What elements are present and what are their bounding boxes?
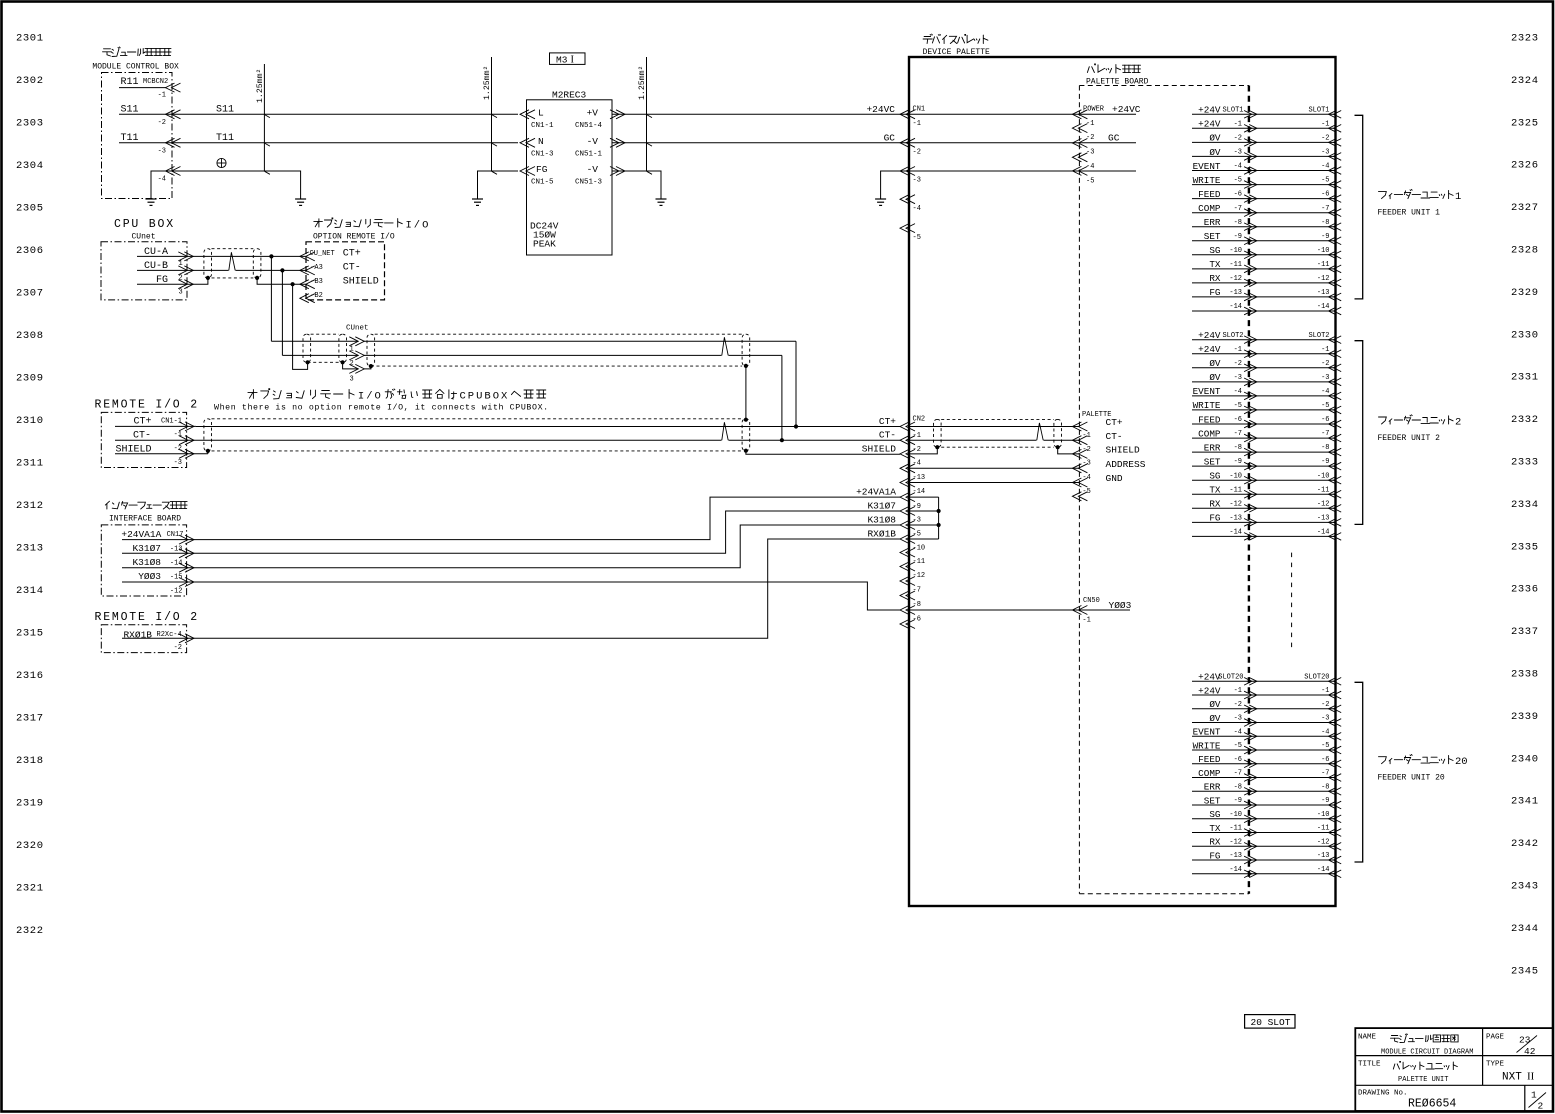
svg-text:+24VA1A: +24VA1A [856, 487, 896, 498]
SLOT2 row 5 wire right segment [1249, 395, 1336, 397]
wire CT+ long run [196, 426, 900, 428]
SLOT2 row 13 connector at slot line [1244, 505, 1252, 513]
wire S11 run to M3I [119, 113, 518, 115]
CN2 right stub +24VA1A [909, 496, 939, 498]
svg-text:FEED: FEED [1198, 414, 1221, 425]
junction SHIELD drop [291, 282, 295, 286]
bus2 left cap [204, 419, 212, 451]
svg-text:-10: -10 [1317, 472, 1330, 480]
svg-text:-B3: -B3 [310, 278, 323, 286]
svg-text:-14: -14 [1317, 303, 1330, 311]
svg-text:-5: -5 [1321, 402, 1329, 410]
SLOT1 row 2 connector at slot line [1244, 125, 1252, 133]
palette board slot line bold dashed [1248, 86, 1250, 894]
SLOT1 row 11 connector at slot line [1244, 251, 1252, 259]
svg-text:-11: -11 [1229, 825, 1242, 833]
wire +24VA1A out [122, 539, 196, 541]
CN2 pin row y=440.2 [900, 436, 909, 445]
svg-text:GND: GND [1106, 473, 1123, 484]
svg-text:-5: -5 [1234, 402, 1242, 410]
interface board box outline [101, 525, 186, 596]
svg-text:-1: -1 [1321, 346, 1329, 354]
SLOT1 row 5 wire right segment [1249, 170, 1336, 172]
svg-text:1: 1 [1531, 1090, 1537, 1101]
SLOT1 row 4 wire right segment [1249, 155, 1336, 157]
connector -A3 CT- [300, 266, 309, 275]
SLOT20 row 2 connector at feeder line [1329, 691, 1337, 699]
SLOT1 row 12 connector at feeder line [1329, 265, 1337, 273]
bus 1.25mm2 left [263, 64, 265, 171]
wire -V to ground [612, 171, 661, 185]
svg-text:2345: 2345 [1511, 965, 1539, 977]
cunet right cap [742, 334, 750, 366]
bus2 shield join [207, 451, 209, 454]
wire CT- out [115, 439, 196, 441]
connector MCBCN2-3 chevron [166, 138, 175, 147]
module control box outline [102, 73, 173, 199]
svg-text:-1: -1 [1234, 687, 1242, 695]
SLOT2 row 1 wire left segment [1192, 339, 1249, 341]
svg-text:CN1: CN1 [913, 106, 926, 114]
SLOT20 row 14 connector at slot line [1244, 856, 1252, 864]
SLOT2 row 12 wire left segment [1192, 493, 1249, 495]
svg-text:-8: -8 [1321, 783, 1329, 791]
SLOT2 row 9 connector at feeder line [1329, 448, 1337, 456]
svg-text:-12: -12 [913, 572, 926, 580]
SLOT20 row 3 wire right segment [1249, 708, 1336, 710]
svg-text:+24V: +24V [1198, 330, 1221, 341]
tick -V [647, 143, 652, 146]
svg-text:CN51-4: CN51-4 [575, 122, 603, 130]
SLOT2 row 9 connector at slot line [1244, 448, 1252, 456]
svg-text:CN1-1: CN1-1 [531, 122, 554, 130]
SLOT2 row 14 wire right segment [1249, 521, 1336, 523]
svg-text:1.25mm²: 1.25mm² [638, 66, 647, 100]
SLOT2 row 14 connector at feeder line [1329, 519, 1337, 527]
SLOT1 row 4 wire left segment [1192, 155, 1249, 157]
svg-text:-B2: -B2 [310, 292, 323, 300]
POWER pin 3 [1072, 139, 1081, 148]
protective earth symbol [217, 158, 226, 167]
svg-text:SET: SET [1204, 795, 1221, 806]
SLOT1 row 1 wire left segment [1192, 113, 1249, 115]
SLOT1 row 7 connector at feeder line [1329, 195, 1337, 203]
svg-text:-7: -7 [1321, 770, 1329, 778]
feeder unit label FEEDER UNIT 1 [1379, 189, 1454, 198]
SLOT2 row 8 wire right segment [1249, 437, 1336, 439]
svg-text:-13: -13 [1317, 289, 1330, 297]
CN1 pin -5 [900, 224, 909, 233]
SLOT2 row 1 wire right segment [1249, 339, 1336, 341]
cunet wire 2 long run [364, 354, 782, 356]
connector MCBCN2-1 chevron [166, 83, 175, 92]
connector chevron +24VA1A [179, 535, 188, 544]
CN1 pin -3 [900, 167, 909, 176]
SLOT20 row 9 connector at feeder line [1329, 788, 1337, 796]
svg-text:-8: -8 [913, 601, 921, 609]
wire RX01B run [196, 539, 900, 638]
device palette outline [909, 57, 1336, 906]
SLOT1 row 6 connector at slot line [1244, 181, 1252, 189]
wire GND CN2 to PALETTE [909, 482, 1079, 484]
svg-text:-3: -3 [1234, 715, 1242, 723]
wire CN1-3 to ground [881, 171, 900, 185]
SLOT2 row 11 connector at slot line [1244, 476, 1252, 484]
SLOT1 row 14 connector at feeder line [1329, 293, 1337, 301]
svg-text:FEED: FEED [1198, 754, 1221, 765]
CN2 pin row y=426.5 [900, 422, 909, 431]
tick T11 [265, 143, 270, 146]
pin FG CN1-5 [520, 167, 529, 176]
label 20 SLOT box [1245, 1015, 1295, 1029]
SLOT1 row 4 connector at slot line [1244, 153, 1252, 161]
svg-text:CN1-1: CN1-1 [161, 418, 182, 426]
svg-text:-12: -12 [170, 588, 183, 596]
SLOT2 row 14 connector at slot line [1244, 519, 1252, 527]
SLOT20 row 5 connector at slot line [1244, 733, 1252, 741]
SLOT2 row 10 connector at feeder line [1329, 462, 1337, 470]
svg-text:PEAK: PEAK [533, 239, 556, 250]
SLOT1 row 9 connector at feeder line [1329, 223, 1337, 231]
svg-text:MODULE CONTROL BOX: MODULE CONTROL BOX [92, 62, 179, 71]
SLOT2 row 11 wire left segment [1192, 479, 1249, 481]
connector pin 1 [178, 252, 187, 261]
SLOT20 row 2 connector at slot line [1244, 691, 1252, 699]
SLOT2 row 7 wire right segment [1249, 423, 1336, 425]
connector chevron K3107 [179, 549, 188, 558]
svg-text:CN17: CN17 [167, 531, 184, 539]
svg-text:-14: -14 [1229, 866, 1242, 874]
cunet connector chevrons row1 [349, 337, 358, 346]
SLOT2 row 3 connector at slot line [1244, 364, 1252, 372]
svg-text:EVENT: EVENT [1193, 727, 1221, 738]
pin -V CN51-3 [610, 167, 619, 176]
svg-text:-10: -10 [1229, 811, 1242, 819]
SLOT20 row 3 connector at slot line [1244, 705, 1252, 713]
SLOT2 row 6 connector at feeder line [1329, 406, 1337, 414]
SLOT20 row 8 wire right segment [1249, 777, 1336, 779]
svg-text:TX: TX [1209, 259, 1221, 270]
ground symbol M3I right [660, 185, 662, 199]
svg-text:3: 3 [179, 289, 183, 297]
SLOT1 row 14 connector at slot line [1244, 293, 1252, 301]
wire CN1-2 GC to POWER [900, 142, 1136, 144]
feeder unit label FEEDER UNIT 20 [1379, 755, 1454, 764]
svg-text:+24V: +24V [1198, 105, 1221, 116]
title INTERFACE BOARD [105, 501, 187, 509]
wire CU-A [137, 255, 196, 257]
svg-text:-4: -4 [1321, 728, 1329, 736]
svg-text:-A3: -A3 [310, 264, 323, 272]
PALETTE pin row y=482.5 [1072, 478, 1081, 487]
svg-text:-1: -1 [174, 431, 182, 439]
svg-text:2335: 2335 [1511, 541, 1539, 553]
svg-text:-4: -4 [913, 460, 921, 468]
svg-text:RX: RX [1209, 837, 1221, 848]
svg-text:TX: TX [1209, 485, 1221, 496]
SLOT20 row 13 connector at feeder line [1329, 843, 1337, 851]
pin -V CN51-1 [610, 138, 619, 147]
SLOT2 row 12 connector at slot line [1244, 490, 1252, 498]
svg-text:2331: 2331 [1511, 372, 1539, 384]
SLOT1 row 11 wire left segment [1192, 254, 1249, 256]
svg-text:PALETTE UNIT: PALETTE UNIT [1398, 1076, 1448, 1084]
svg-text:COMP: COMP [1198, 428, 1221, 439]
tick L [492, 115, 497, 118]
SLOT2 row 11 wire right segment [1249, 479, 1336, 481]
tick earth [265, 171, 270, 174]
SLOT1 row 13 wire left segment [1192, 282, 1249, 284]
SLOT20 row 2 wire right segment [1249, 694, 1336, 696]
connector -B3 SHIELD [300, 280, 309, 289]
SLOT20 row 2 wire left segment [1192, 694, 1249, 696]
SLOT20 row 10 wire right segment [1249, 804, 1336, 806]
svg-text:COMP: COMP [1198, 768, 1221, 779]
svg-text:CT+: CT+ [343, 249, 361, 260]
cunet wire 2 left [282, 354, 358, 356]
wire CT- CN2 to PALETTE [909, 439, 1079, 441]
junction CT+ drop [269, 254, 273, 258]
wire K3107 run [196, 511, 900, 553]
svg-text:-2: -2 [1234, 701, 1242, 709]
svg-text:2306: 2306 [16, 245, 44, 257]
CN2 pin row y=497.1 [900, 493, 909, 502]
svg-text:-12: -12 [1229, 500, 1242, 508]
wire T11 run to M3I [119, 142, 518, 144]
svg-text:ERR: ERR [1204, 217, 1221, 228]
CN2 right stub K3107 [909, 510, 939, 512]
cable CPU-option: wire CU-A to CT+ [196, 255, 306, 257]
wire -V to CN1 GC [612, 142, 900, 144]
connector chevron CT- [179, 436, 188, 445]
SLOT1 row 13 connector at feeder line [1329, 279, 1337, 287]
bus2 twist symbol [722, 439, 729, 442]
svg-text:FG: FG [1209, 850, 1220, 861]
SLOT2 row 3 wire left segment [1192, 367, 1249, 369]
SLOT1 row 12 wire right segment [1249, 268, 1336, 270]
SLOT2 row 9 wire right segment [1249, 451, 1336, 453]
svg-text:-14: -14 [1317, 529, 1330, 537]
svg-text:II: II [1527, 1071, 1535, 1083]
SLOT20 row 13 wire right segment [1249, 845, 1336, 847]
svg-text:-14: -14 [170, 560, 183, 568]
svg-text:-5: -5 [1234, 177, 1242, 185]
svg-text:-11: -11 [1229, 261, 1242, 269]
SLOT2 row 10 wire left segment [1192, 465, 1249, 467]
wire SHIELD cable to PALETTE [1058, 447, 1080, 454]
svg-text:2314: 2314 [16, 585, 44, 597]
svg-text:+24VC: +24VC [866, 104, 895, 115]
wire R11 stub [119, 87, 166, 89]
SLOT1 row 13 wire right segment [1249, 282, 1336, 284]
svg-text:WRITE: WRITE [1193, 175, 1221, 186]
connector -B2 [300, 294, 309, 303]
svg-text:2329: 2329 [1511, 287, 1539, 299]
title block divider v1 [1482, 1028, 1484, 1085]
svg-text:2319: 2319 [16, 798, 44, 810]
svg-text:CN1-5: CN1-5 [531, 179, 554, 187]
svg-text:-2: -2 [913, 149, 921, 157]
svg-text:-7: -7 [1234, 770, 1242, 778]
svg-text:SLOT20: SLOT20 [1218, 674, 1243, 682]
svg-text:2342: 2342 [1511, 838, 1539, 850]
bus 1.25mm2 right [646, 57, 648, 171]
SLOT20 row 8 connector at feeder line [1329, 774, 1337, 782]
svg-text:2301: 2301 [16, 33, 44, 45]
svg-text:+24VC: +24VC [1112, 104, 1141, 115]
svg-text:WRITE: WRITE [1193, 740, 1221, 751]
POWER pin 5 [1072, 166, 1081, 175]
svg-text:-8: -8 [1234, 444, 1242, 452]
svg-text:1.25mm²: 1.25mm² [256, 69, 265, 103]
svg-text:GC: GC [1108, 132, 1120, 143]
SLOT1 row 13 connector at slot line [1244, 279, 1252, 287]
title block outline [1355, 1028, 1553, 1111]
svg-text:-7: -7 [1321, 430, 1329, 438]
title block divider h2 [1355, 1084, 1553, 1086]
SLOT1 row 9 connector at slot line [1244, 223, 1252, 231]
cunet shield jog at connector [343, 362, 358, 369]
SLOT1 row 12 connector at slot line [1244, 265, 1252, 273]
svg-text:-9: -9 [1234, 797, 1242, 805]
SLOT2 row 15 wire right segment [1249, 535, 1336, 537]
SLOT20 row 6 wire left segment [1192, 749, 1249, 751]
connector chevron CT+ [179, 422, 188, 431]
SLOT2 row 15 connector at feeder line [1329, 533, 1337, 541]
SLOT1 row 10 connector at slot line [1244, 237, 1252, 245]
SLOT20 row 5 wire right segment [1249, 735, 1336, 737]
svg-text:RX: RX [1209, 273, 1221, 284]
SLOT1 row 3 wire right segment [1249, 141, 1336, 143]
svg-text:-2: -2 [174, 445, 182, 453]
SLOT1 row 14 wire right segment [1249, 296, 1336, 298]
svg-text:-10: -10 [1229, 247, 1242, 255]
ground symbol CN1 [880, 185, 882, 199]
svg-text:ERR: ERR [1204, 442, 1221, 453]
SLOT2 row 8 connector at feeder line [1329, 434, 1337, 442]
SLOT2 row 13 wire left segment [1192, 507, 1249, 509]
cunet wire2 drop to CT- [781, 355, 783, 440]
SLOT20 row 6 connector at feeder line [1329, 746, 1337, 754]
svg-text:ADDRESS: ADDRESS [1106, 459, 1146, 470]
SLOT20 row 9 wire right segment [1249, 790, 1336, 792]
SLOT1 row 8 wire left segment [1192, 212, 1249, 214]
svg-text:CT+: CT+ [1106, 417, 1123, 428]
svg-text:2320: 2320 [16, 840, 44, 852]
svg-text:SET: SET [1204, 456, 1221, 467]
svg-text:-10: -10 [1317, 811, 1330, 819]
svg-text:NXT: NXT [1502, 1072, 1522, 1084]
wire CT+ out [115, 425, 196, 427]
svg-text:-1: -1 [913, 120, 921, 128]
SLOT20 row 12 connector at feeder line [1329, 829, 1337, 837]
svg-text:2323: 2323 [1511, 33, 1539, 45]
svg-text:2310: 2310 [16, 415, 44, 427]
PALETTE pin row y=426.5 [1072, 422, 1081, 431]
svg-text:TX: TX [1209, 823, 1221, 834]
SLOT1 row 1 connector at slot line [1244, 111, 1252, 119]
SLOT1 row 1 connector at feeder line [1329, 111, 1337, 119]
svg-text:2341: 2341 [1511, 796, 1539, 808]
svg-text:SLOT1: SLOT1 [1308, 107, 1329, 115]
SLOT1 row 2 wire right segment [1249, 127, 1336, 129]
svg-text:-2: -2 [158, 119, 166, 127]
cable CN2-PALETTE twist symbol [1037, 439, 1044, 442]
ground symbol left [150, 185, 152, 199]
svg-text:2334: 2334 [1511, 499, 1539, 511]
svg-text:-3: -3 [174, 459, 182, 467]
svg-text:2304: 2304 [16, 160, 44, 172]
svg-text:SLOT1: SLOT1 [1222, 107, 1243, 115]
SLOT20 row 15 connector at slot line [1244, 870, 1252, 878]
cable CN2-PALETTE caps [934, 419, 942, 447]
SLOT20 row 6 connector at slot line [1244, 746, 1252, 754]
feeder unit bracket FEEDER UNIT 20 [1355, 682, 1363, 862]
POWER pin 1 [1072, 110, 1081, 119]
svg-text:-4: -4 [913, 205, 921, 213]
svg-text:+24V: +24V [1198, 119, 1221, 130]
svg-text:EVENT: EVENT [1193, 386, 1221, 397]
SLOT20 row 11 wire left segment [1192, 818, 1249, 820]
svg-text:MODULE CIRCUIT DIAGRAM: MODULE CIRCUIT DIAGRAM [1381, 1049, 1473, 1057]
SLOT1 row 2 connector at feeder line [1329, 125, 1337, 133]
CN2 stub tie vertical [938, 497, 940, 539]
cunet connector chevrons row2 [349, 351, 358, 360]
svg-text:-8: -8 [1321, 444, 1329, 452]
svg-text:2344: 2344 [1511, 923, 1539, 935]
svg-text:2332: 2332 [1511, 414, 1539, 426]
svg-text:-2: -2 [1321, 701, 1329, 709]
wire Y003 out [122, 581, 196, 583]
SLOT1 row 10 wire right segment [1249, 240, 1336, 242]
connector chevron RX01B [179, 634, 188, 643]
SLOT20 row 1 connector at slot line [1244, 678, 1252, 686]
SLOT2 row 7 connector at feeder line [1329, 420, 1337, 428]
SLOT20 row 15 wire right segment [1249, 873, 1336, 875]
CN2 pin row y=539 [900, 535, 909, 544]
svg-text:ØV: ØV [1209, 699, 1221, 710]
wire Y003 run [196, 582, 900, 610]
svg-text:When there is no option remote: When there is no option remote I/O, it c… [214, 403, 549, 413]
cunet right cable left cap [367, 334, 375, 366]
svg-text:T11: T11 [121, 133, 139, 144]
svg-text:GC: GC [884, 132, 896, 143]
svg-text:-12: -12 [1317, 838, 1330, 846]
svg-text:FEEDER UNIT 1: FEEDER UNIT 1 [1378, 209, 1441, 218]
svg-text:2307: 2307 [16, 288, 44, 300]
SLOT1 row 15 wire right segment [1249, 310, 1336, 312]
svg-text:-14: -14 [1229, 529, 1242, 537]
svg-text:-4: -4 [1234, 163, 1242, 171]
svg-text:SHIELD: SHIELD [1106, 445, 1141, 456]
wire SHIELD out [115, 453, 208, 455]
svg-text:-4: -4 [1321, 388, 1329, 396]
svg-text:-5: -5 [1234, 742, 1242, 750]
svg-text:-6: -6 [1234, 191, 1242, 199]
svg-text:-2: -2 [1234, 135, 1242, 143]
svg-text:-8: -8 [1234, 219, 1242, 227]
svg-text:2305: 2305 [16, 203, 44, 215]
svg-text:CU_NET: CU_NET [310, 250, 335, 258]
note japanese [248, 389, 354, 399]
cunet long cable dashed bottom [371, 365, 742, 367]
svg-text:-11: -11 [1317, 261, 1330, 269]
svg-text:K31Ø7: K31Ø7 [867, 500, 896, 511]
wire ADDRESS CN2 to PALETTE [909, 467, 1079, 469]
svg-text:-7: -7 [1234, 430, 1242, 438]
wire CU-B [137, 269, 196, 271]
svg-text:2: 2 [350, 360, 354, 368]
